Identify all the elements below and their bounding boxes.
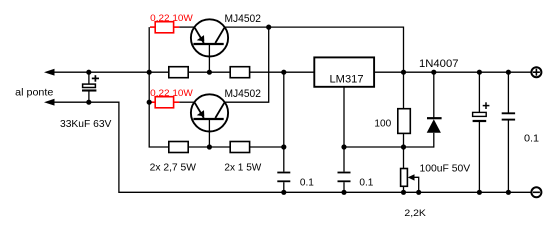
- wire Q2 collector tie: [225, 27, 269, 102]
- junction negative wire / 33KuF cap bottom: [86, 100, 91, 105]
- wire LM317 adj down with cap: [343, 87, 345, 193]
- wire vertical x=283.8 with cap: [283, 72, 285, 192]
- resistor 2x 1 5W (row2 right): [230, 142, 249, 153]
- resistor 0,22 10W bottom (red): [150, 97, 179, 108]
- junction bottom rail / trimmer wiper: [416, 190, 421, 195]
- resistor base top-right (row1): [230, 67, 249, 78]
- junction feed column / 0,22 bottom resistor: [147, 100, 152, 105]
- regulator U1 LM317: [314, 57, 374, 86]
- junction bottom rail / 0.1 cap middle bottom: [341, 190, 346, 195]
- junction row2 / 0.1 cap left branch: [281, 144, 286, 149]
- svg-text:100uF 50V: 100uF 50V: [420, 164, 471, 175]
- svg-text:LM317: LM317: [330, 74, 364, 86]
- svg-text:100: 100: [374, 118, 391, 130]
- terminal minus: [531, 187, 541, 197]
- svg-text:2,2K: 2,2K: [404, 208, 426, 218]
- junction bottom rail / 100uF cap bottom: [477, 190, 482, 195]
- svg-text:0.1: 0.1: [300, 178, 314, 189]
- junction Q2 base / divider row2: [207, 144, 212, 149]
- resistor 100: [398, 72, 411, 147]
- wire Q2 base: [208, 120, 210, 147]
- junction output rail / resistor 100 top: [401, 70, 406, 75]
- terminal plus: [531, 67, 541, 77]
- transistor Q1 MJ4502: [191, 19, 228, 56]
- junction bottom rail / 0.1 cap right bottom: [506, 190, 511, 195]
- junction input rail / 33KuF cap top: [86, 70, 91, 75]
- resistor base top-left (row1): [169, 67, 188, 78]
- svg-text:2x 2,7 5W: 2x 2,7 5W: [150, 163, 197, 174]
- wire negative rail / bottom rail: [50, 102, 531, 192]
- junction Q1 base / divider row1: [207, 70, 212, 75]
- junction output rail / diode 1N4007 cathode: [431, 70, 436, 75]
- resistor 0,22 10W top (red): [150, 22, 179, 33]
- junction adj wire / resistor 100 / trimmer: [401, 144, 406, 149]
- wire Q1 collector to top corner and down: [225, 27, 404, 72]
- svg-text:0,22 10W: 0,22 10W: [150, 13, 193, 23]
- capacitor 0.1 (middle): [338, 173, 351, 182]
- svg-text:2x 1 5W: 2x 1 5W: [224, 163, 261, 174]
- junction input rail / 0,22 resistors feed: [147, 70, 152, 75]
- junction LM317 adj / 0.1 cap middle branch: [341, 144, 346, 149]
- transistor Q2 MJ4502: [191, 94, 228, 131]
- junction Q1-Q2 collectors: [266, 25, 271, 30]
- resistor 2x 2,7 5W (row2 left): [169, 142, 188, 153]
- wire input rail y=72: [50, 71, 314, 73]
- svg-text:0.1: 0.1: [359, 178, 373, 189]
- svg-text:MJ4502: MJ4502: [225, 13, 261, 25]
- capacitor 0.1 (right): [502, 72, 515, 192]
- wire row2: [188, 146, 284, 148]
- capacitor 0.1 (left): [277, 173, 290, 182]
- arrow to bridge negative: [44, 99, 55, 106]
- wire Q2 emitter: [179, 101, 194, 103]
- diode 1N4007: [427, 72, 442, 147]
- trimmer 2,2K: [401, 147, 419, 192]
- junction bottom rail / 0.1 cap left bottom: [281, 190, 286, 195]
- wire adj to resistor 100 bottom: [344, 146, 434, 148]
- svg-text:0,22 10W: 0,22 10W: [150, 88, 193, 98]
- junction output rail / 0.1 cap right top: [506, 70, 511, 75]
- svg-text:0.1: 0.1: [524, 134, 539, 145]
- arrow to bridge positive: [44, 69, 55, 76]
- svg-text:33KuF 63V: 33KuF 63V: [60, 119, 111, 130]
- svg-text:1N4007: 1N4007: [419, 58, 459, 70]
- junction bottom rail / trimmer bottom: [401, 190, 406, 195]
- wire Q1 base: [208, 45, 210, 72]
- capacitor 33KuF 63V: [82, 72, 99, 102]
- wire input vertical to row2: [149, 27, 169, 147]
- junction row1 / LM317 input branch: [281, 70, 286, 75]
- svg-text:MJ4502: MJ4502: [225, 88, 261, 100]
- wire output rail y=72: [374, 71, 531, 73]
- junction output rail / 100uF cap top: [477, 70, 482, 75]
- svg-text:al ponte: al ponte: [15, 88, 54, 99]
- capacitor 100uF 50V: [473, 72, 490, 192]
- wire Q1 emitter: [179, 26, 194, 28]
